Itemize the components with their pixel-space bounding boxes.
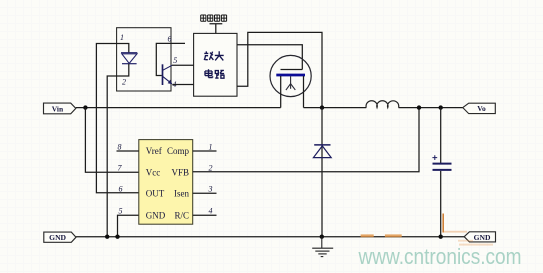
phototransistor Q1 of optocoupler: [156, 43, 185, 85]
wire: opto collector pin5 to amplifier: [172, 64, 194, 66]
svg-text:6: 6: [168, 35, 172, 44]
wire: amplifier to MOSFET gate: [237, 45, 302, 70]
node: capacitor junction: [439, 105, 443, 109]
label 电路 (drawn strokes): [205, 69, 224, 78]
ground symbol: [312, 237, 333, 257]
node: opto return junction: [105, 235, 109, 239]
GND terminal tag right: [464, 232, 495, 242]
svg-text:R/C: R/C: [174, 211, 189, 221]
inductor L1: [366, 101, 399, 108]
node: IC ground junction: [115, 235, 119, 239]
wire: opto pin2 down to ground rail: [107, 76, 116, 237]
svg-text:1: 1: [120, 33, 124, 42]
svg-text:5: 5: [119, 206, 123, 215]
node: capacitor ground junction: [439, 235, 443, 239]
wire: Vin to IC Vcc pin7: [85, 108, 138, 173]
MOSFET Q2: [270, 55, 311, 107]
GND terminal tag left: [44, 232, 76, 242]
wire: output rail: [399, 107, 463, 109]
amplifier box U2: [194, 33, 237, 96]
pin 1 stub: [193, 150, 217, 152]
pin 3 stub: [193, 192, 217, 194]
capacitor C1 output: [432, 108, 451, 237]
svg-text:1: 1: [209, 143, 213, 152]
svg-text:VFB: VFB: [171, 167, 189, 177]
node: diode junction: [320, 105, 324, 109]
svg-text:2: 2: [209, 164, 213, 173]
Vin terminal tag: [44, 103, 76, 114]
svg-text:Vcc: Vcc: [146, 167, 161, 177]
pin 8 stub: [117, 150, 139, 152]
wire: main input rail: [76, 107, 281, 109]
wire: IC GND pin5 to ground rail: [118, 215, 139, 237]
svg-text:GND: GND: [474, 233, 491, 242]
svg-text:2: 2: [122, 78, 126, 87]
pin 4 stub: [193, 214, 217, 216]
wire: ground rail: [76, 236, 464, 238]
label: aux supply text (CJK approximated): [201, 15, 227, 21]
svg-text:GND: GND: [146, 211, 166, 221]
wire: supply tee into amplifier box: [210, 24, 223, 34]
watermark orange marks: [361, 214, 493, 246]
svg-text:6: 6: [119, 185, 123, 194]
svg-text:OUT: OUT: [146, 189, 165, 199]
node: Vin junction: [83, 105, 87, 109]
wire: amplifier output riser to drain node: [237, 32, 322, 107]
node: diode anode junction: [320, 235, 324, 239]
svg-text:GND: GND: [49, 233, 66, 242]
svg-text:8: 8: [118, 143, 122, 152]
svg-text:Vin: Vin: [52, 104, 64, 113]
LED D1 of optocoupler: [117, 44, 138, 77]
svg-text:4: 4: [209, 206, 213, 215]
svg-text:www.cntronics.com: www.cntronics.com: [358, 244, 522, 269]
wire: VFB pin2 to output sense: [193, 108, 419, 172]
svg-text:3: 3: [208, 185, 213, 194]
svg-text:Vo: Vo: [477, 104, 486, 113]
wire: opto pin1 down to IC OUT pin6: [96, 44, 138, 193]
svg-text:Comp: Comp: [167, 146, 190, 156]
label 放大 (drawn strokes): [204, 51, 224, 60]
wire: opto emitter pin4 to amplifier: [172, 84, 193, 86]
IC U3 PWM controller box: [139, 140, 193, 225]
optocoupler U1 box: [117, 28, 171, 91]
wire: switch node rail: [304, 107, 367, 109]
svg-text:Isen: Isen: [174, 189, 189, 199]
svg-text:5: 5: [173, 56, 177, 65]
node: feedback junction: [417, 105, 421, 109]
svg-text:Vref: Vref: [146, 146, 162, 156]
Vo terminal tag: [463, 103, 496, 113]
diode D2 freewheeling: [313, 108, 331, 237]
